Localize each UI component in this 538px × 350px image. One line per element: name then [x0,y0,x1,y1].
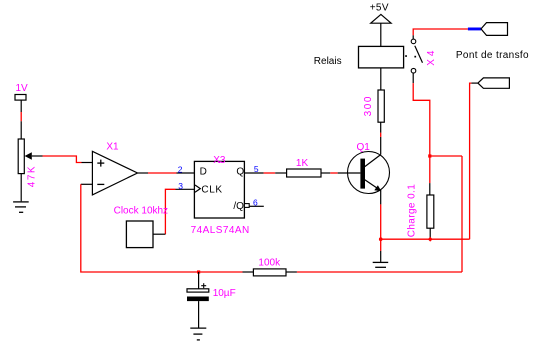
resistor 1K [287,169,321,177]
pin 6 stub [249,205,264,207]
capacitor plus sign [201,283,206,288]
wire op-amp output to pin 2 [148,172,177,174]
+5V power symbol [371,14,391,23]
resistor 300 [378,90,384,122]
svg-text:CLK: CLK [201,184,222,195]
wire terminal to potentiometer [20,100,22,112]
lower connector lead [471,82,478,84]
svg-text:2: 2 [178,164,183,174]
transistor emitter lead down [380,190,382,204]
lower connector [478,78,510,88]
charge resistor bottom lead [429,228,431,239]
transistor collector lead up [380,137,382,155]
wire switch top to upper connector [413,29,468,35]
svg-text:6: 6 [253,198,258,208]
bottom rail right part [297,271,462,273]
clock generator box [126,221,153,248]
wire junction A to charge resistor [429,156,431,183]
svg-text:300: 300 [363,95,374,117]
wire pin 5 to resistor 1K [244,172,263,174]
resistor 100k leads [243,271,254,273]
resistor 100k [253,269,286,276]
ground under capacitor [190,328,206,340]
wire pot wiper to op-amp plus input [43,156,82,163]
svg-text:Q: Q [236,166,244,177]
vertical rail to bottom wire [461,156,463,272]
svg-text:/Q: /Q [233,201,244,212]
svg-text:1K: 1K [296,158,309,169]
wire switch bottom down to junction A [413,83,430,156]
svg-text:Clock 10khz: Clock 10khz [114,206,168,217]
junction at emitter [379,237,383,241]
wire junction A to vertical rail [430,155,462,157]
wire pot bottom to ground [20,174,22,202]
svg-text:Relais: Relais [314,56,342,67]
resistor Charge 0.1 [427,195,434,228]
switch X4 [411,35,422,83]
flip-flop /Q bubble [244,204,249,208]
junction at capacitor [197,270,200,273]
flip-flop X3 body [194,161,244,218]
svg-text:X3: X3 [213,155,226,166]
svg-text:Pont de transfo: Pont de transfo [456,50,529,61]
potentiometer 47K body [18,139,24,174]
wire 1K to transistor base [321,172,330,174]
ground under potentiometer [13,202,29,212]
capacitor bottom lead [198,301,200,328]
capacitor top lead [198,272,200,289]
ground under transistor [373,262,389,267]
op-amp minus input lead [81,183,93,185]
wire emitter junction to lower connector riser [381,238,470,240]
riser to lower connector [470,83,472,239]
svg-text:X4: X4 [426,48,437,66]
junction B [428,237,433,242]
junction A [428,154,431,157]
svg-text:74ALS74AN: 74ALS74AN [191,225,250,236]
mechanical link dots relay to switch [405,55,407,57]
op-amp output lead [138,172,149,174]
wire emitter to ground [380,239,382,251]
wire clock to pin 3 [165,189,175,234]
svg-text:D: D [200,166,207,177]
flip-flop clock chevron [195,185,200,192]
svg-text:+5V: +5V [370,3,389,14]
upper connector Pont de transfo [481,23,508,36]
wire relay to resistor 300 [380,68,382,90]
svg-text:3: 3 [178,181,183,191]
feedback wire from minus input down to bottom rail [81,184,243,272]
svg-text:X1: X1 [106,142,119,153]
relay coil [359,46,404,68]
svg-text:10µF: 10µF [213,288,236,299]
op-amp X1 [92,151,137,195]
svg-text:47K: 47K [26,165,37,187]
wire +5V to relay [380,23,382,46]
svg-text:100k: 100k [258,257,281,268]
capacitor C1 10uF [187,289,209,292]
terminal 1V [15,95,26,101]
svg-text:Charge 0.1: Charge 0.1 [406,184,417,238]
blue bus segment [468,28,481,31]
svg-text:1V: 1V [16,83,29,94]
svg-text:5: 5 [254,164,259,174]
transistor Q1 [348,152,390,194]
potentiometer wiper arrow [25,152,32,160]
clock generator lead [153,233,165,235]
